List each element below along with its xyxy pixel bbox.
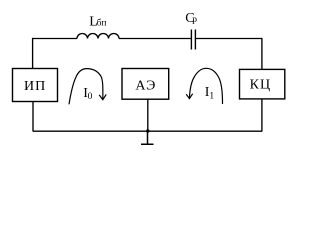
box ИП (источник питания) [13,69,58,102]
wire АЭ bottom vertical [147,99,149,131]
current loop arrow I0 (clockwise, between ИП and АЭ) [69,69,106,105]
wire top-left horizontal segment [32,38,77,40]
wire top-right horizontal segment [196,38,262,40]
svg-text:1: 1 [209,92,214,102]
svg-text:0: 0 [88,92,93,102]
wire top-middle horizontal segment [119,38,191,40]
svg-text:ИП: ИП [24,79,46,94]
wire left vertical (top wire to ИП) [32,38,34,68]
wire right vertical (top wire to КЦ) [261,38,263,70]
svg-text:бп: бп [97,18,107,29]
ground [141,131,154,144]
svg-text:АЭ: АЭ [135,79,156,94]
wire ИП bottom vertical [32,102,34,132]
wire bottom horizontal [33,130,262,132]
box КЦ (колебательная цепь) [240,69,285,99]
current loop arrow I1 (counter-clockwise, between АЭ and КЦ) [186,68,222,104]
wire КЦ bottom vertical [261,99,263,132]
svg-text:р: р [192,15,197,25]
capacitor Cр [191,30,195,50]
box АЭ (активный элемент) [122,69,169,100]
inductor Lбп [77,34,119,39]
svg-text:КЦ: КЦ [250,77,271,92]
junction node dot [146,129,149,132]
